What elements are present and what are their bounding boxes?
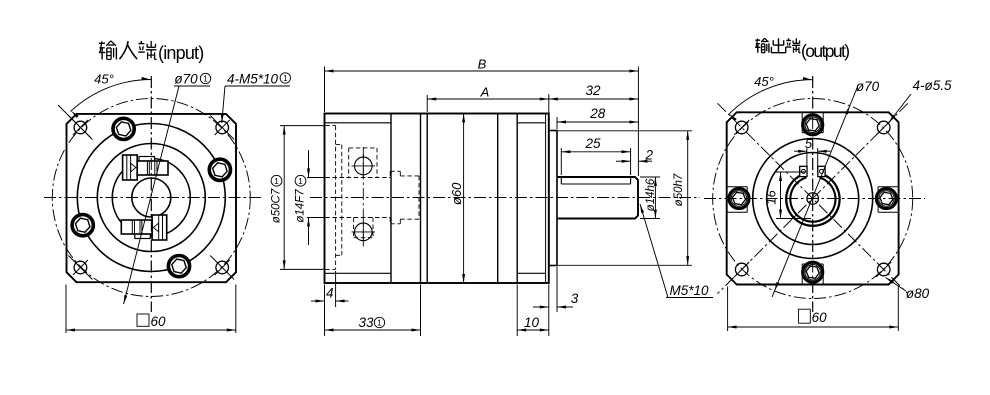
svg-text:2: 2 <box>645 148 654 163</box>
svg-text:ø60: ø60 <box>449 182 464 205</box>
snap ring lug left <box>800 166 807 176</box>
label 4-M5*10 (1) input with leader <box>221 72 291 124</box>
corner diagonal extension top-left <box>58 105 90 137</box>
side view centerline <box>310 197 700 199</box>
output bolt circle ø70 dash-dot <box>713 99 913 299</box>
input view centerline horizontal <box>44 197 262 199</box>
output mid circle <box>767 153 859 245</box>
through hole ø5.5 output TL <box>734 120 749 135</box>
output view centerline horizontal <box>704 198 925 200</box>
output diagonal centerline NW-SE <box>718 103 908 293</box>
svg-text:32: 32 <box>585 83 601 98</box>
output face double line <box>545 114 547 284</box>
svg-text:1: 1 <box>203 75 208 84</box>
svg-text:M5*10: M5*10 <box>669 283 709 298</box>
tapped corner hole M5 input BL <box>68 256 92 280</box>
screw pockets S <box>801 264 803 285</box>
svg-text:4: 4 <box>326 286 334 301</box>
input recess circle ø50C7 <box>97 144 205 252</box>
clamp access hole bottom <box>355 223 373 241</box>
dim 45deg input <box>71 72 152 119</box>
through hole ø5.5 output BL <box>734 262 749 277</box>
svg-text:28: 28 <box>589 106 606 121</box>
output view centerline vertical <box>812 76 814 312</box>
output flange divider <box>516 114 518 284</box>
dim A <box>427 85 549 130</box>
dim ø14F7 (1) <box>295 150 325 245</box>
dim ø60 <box>449 114 465 284</box>
output big circle <box>753 139 873 259</box>
through hole ø5.5 output TR <box>876 120 891 135</box>
clamp screw assembly top <box>123 155 168 180</box>
output snap ring outer <box>786 173 839 226</box>
dim 32 <box>549 83 639 101</box>
hex socket screw input left <box>72 215 93 236</box>
clamp access hole top <box>355 157 373 175</box>
hex socket screw output W <box>729 189 749 209</box>
body rear divider <box>497 114 499 284</box>
screw pockets E <box>878 186 899 188</box>
output flange corner chamfer lines <box>517 122 545 124</box>
svg-text:A: A <box>480 85 490 100</box>
hex socket screw output N <box>803 115 823 135</box>
svg-text:45°: 45° <box>94 72 114 87</box>
title 输入端(input) <box>99 41 204 63</box>
svg-text:1: 1 <box>274 177 279 186</box>
dim 33 (1) <box>325 285 421 337</box>
svg-text:ø80: ø80 <box>906 286 930 301</box>
tapped corner hole M5 input TL <box>68 116 92 140</box>
tapped corner hole M5 input TR <box>210 116 234 140</box>
through hole ø5.5 output BR <box>876 262 891 277</box>
input bolt circle dash-dot <box>52 99 250 297</box>
svg-text:B: B <box>478 57 487 72</box>
side view body outline <box>325 114 549 284</box>
hidden bearing step <box>336 144 342 146</box>
svg-text:10: 10 <box>524 315 540 330</box>
svg-text:ø50h7: ø50h7 <box>673 173 685 206</box>
dim ø50h7 <box>558 131 692 265</box>
hidden recess ø50C7 <box>325 125 335 127</box>
access hole centerline <box>362 147 364 248</box>
label M5*10 with leader <box>640 204 713 298</box>
svg-text:3: 3 <box>571 291 579 306</box>
hidden bore ø14F7 <box>325 177 390 179</box>
svg-text:25: 25 <box>584 136 601 151</box>
svg-text:33: 33 <box>358 315 374 330</box>
output diagonal centerline NE-SW <box>718 103 908 293</box>
input centerline overlay <box>150 76 152 312</box>
dim B <box>325 57 639 177</box>
dim 45deg output <box>729 74 813 121</box>
output center hole M5 <box>807 193 819 205</box>
hex socket screw input top <box>113 118 134 139</box>
dim ø14h6 <box>640 177 660 219</box>
output shaft ø14h6 <box>557 177 638 219</box>
snap ring lug right <box>818 166 825 176</box>
input clamp collar circle <box>112 159 190 237</box>
keyway slot <box>806 167 808 175</box>
svg-text:ø70: ø70 <box>856 79 880 94</box>
label 4-ø5.5 output with leader <box>889 78 952 123</box>
dim 5 keyway <box>794 136 831 168</box>
svg-text:5: 5 <box>805 136 813 151</box>
hidden bore steps at rear <box>389 171 391 177</box>
output centerline overlays <box>812 76 814 312</box>
svg-text:45°: 45° <box>754 74 774 89</box>
dim 25 <box>561 136 630 175</box>
input flange corner chamfer lines <box>325 122 392 124</box>
input bore circle ø14F7 <box>132 178 171 217</box>
dim 10 <box>517 285 549 337</box>
screw pockets W <box>727 186 748 188</box>
dim square 60 input <box>66 285 236 334</box>
svg-text:ø14h6: ø14h6 <box>645 178 657 211</box>
hex socket screw output S <box>803 262 823 282</box>
label ø70 (1) input with leader <box>124 72 211 305</box>
svg-text:ø14F7: ø14F7 <box>295 189 307 223</box>
output snap ring inner <box>790 178 835 222</box>
output boss ø50h7 <box>549 131 557 266</box>
screw pockets N <box>801 112 803 133</box>
svg-text:(output): (output) <box>801 41 849 61</box>
output flange plate (chamfered square) <box>727 112 899 284</box>
svg-text:1: 1 <box>283 74 288 83</box>
dim ø50C7 (1) <box>271 126 326 270</box>
hidden clamp access counterbores <box>348 148 350 178</box>
svg-text:4-ø5.5: 4-ø5.5 <box>912 78 952 93</box>
dim 16 <box>763 172 811 219</box>
svg-text:1: 1 <box>298 177 303 186</box>
svg-text:ø70: ø70 <box>174 72 198 87</box>
title 输出端(output) <box>755 38 849 61</box>
shaft milled flat <box>561 183 630 185</box>
dim square 60 output <box>728 287 899 332</box>
svg-text:60: 60 <box>151 314 167 329</box>
svg-text:16: 16 <box>763 190 778 205</box>
dim 3 <box>533 267 579 312</box>
label ø80 with leader <box>886 278 930 302</box>
clamp screw assembly bottom <box>121 215 166 240</box>
ring section divider double <box>420 114 422 284</box>
flange/body divider <box>390 114 392 284</box>
svg-text:1: 1 <box>377 319 382 328</box>
svg-text:ø50C7: ø50C7 <box>271 188 283 223</box>
hex socket screw output E <box>876 189 896 209</box>
svg-text:(input): (input) <box>158 43 203 63</box>
label ø70 output with leader <box>772 79 880 297</box>
hex socket screw input right <box>209 159 230 180</box>
dim 2 <box>616 148 654 163</box>
input view centerline vertical <box>150 76 152 312</box>
input screw pitch circle <box>77 124 225 272</box>
dim 4 <box>311 271 349 307</box>
svg-text:4-M5*10: 4-M5*10 <box>227 72 279 87</box>
tapped corner hole M5 input BR <box>210 256 234 280</box>
svg-text:60: 60 <box>812 310 828 325</box>
dim 28 <box>557 106 638 129</box>
hex socket screw input bottom <box>168 256 189 277</box>
input flange plate (chamfered square) <box>67 114 237 282</box>
